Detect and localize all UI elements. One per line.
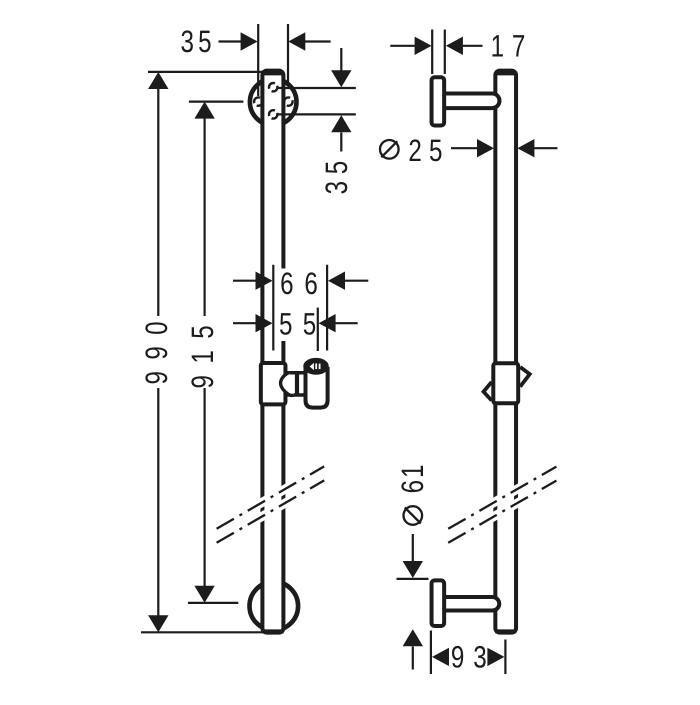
svg-text:25: 25 bbox=[408, 133, 449, 168]
bar bottom cap line (side) bbox=[495, 629, 516, 633]
arrow 990 top bbox=[148, 72, 168, 89]
wall flange top (front view) bbox=[250, 79, 297, 126]
ext line 990 bottom bbox=[141, 631, 264, 633]
ext line 35top left bbox=[257, 24, 259, 96]
ext line 17 left bbox=[431, 30, 433, 75]
ring opening white tick 2 bbox=[319, 364, 321, 370]
dim tail 17 left bbox=[390, 45, 415, 47]
top wall arm (side) bbox=[446, 94, 500, 109]
arrow 35right down bbox=[331, 70, 351, 87]
wall flange bottom (front view) bbox=[249, 582, 298, 631]
dim tail 35top right bbox=[305, 40, 331, 42]
bar top cap line (front) bbox=[262, 72, 283, 76]
ext line 93 left bbox=[430, 631, 432, 675]
holder cone beak (front) bbox=[281, 372, 294, 395]
break line casing (front) bbox=[217, 466, 325, 542]
break line upper (front) bbox=[217, 466, 325, 528]
ext line 35right upper bbox=[278, 87, 356, 89]
holder neck bottom line (front) bbox=[286, 393, 305, 397]
arrow 93 right bbox=[487, 648, 504, 666]
arrow 61 up bbox=[403, 629, 423, 646]
arrow 35right up bbox=[331, 115, 351, 132]
top wall flange (side) bbox=[432, 77, 445, 125]
screw hole S bbox=[269, 110, 277, 118]
arrow 915 bottom bbox=[194, 586, 214, 603]
svg-text:9 3: 9 3 bbox=[451, 640, 488, 675]
ext line 17 right bbox=[444, 30, 446, 75]
arrow 66 right bbox=[328, 272, 345, 290]
ext line 915 top bbox=[189, 100, 244, 102]
dim line 915 lower segment bbox=[204, 388, 206, 587]
ext line 915 bottom bbox=[188, 602, 238, 604]
ext line 61 top bbox=[397, 578, 429, 580]
break line upper (side) bbox=[448, 467, 556, 529]
slider left chevron (side) bbox=[484, 382, 492, 401]
diameter symbol for 25 bbox=[380, 140, 399, 159]
arrow 25 left bbox=[477, 139, 494, 157]
arrow 61 down bbox=[403, 561, 423, 578]
bottom wall arm (side) bbox=[446, 597, 499, 611]
dim tail 25 right bbox=[534, 147, 557, 149]
svg-text:9 9 0: 9 9 0 bbox=[139, 319, 174, 384]
slider body (front view) bbox=[261, 363, 286, 404]
svg-text:35: 35 bbox=[180, 24, 215, 59]
dim line 990 upper segment bbox=[157, 89, 159, 317]
dim line 990 lower segment bbox=[157, 388, 159, 616]
svg-text:17: 17 bbox=[491, 29, 533, 64]
arrow 17 right bbox=[446, 37, 463, 55]
ext line 990 top bbox=[148, 71, 263, 73]
ext line 35top right bbox=[287, 24, 289, 83]
white halo behind 66/55 labels bbox=[277, 269, 316, 342]
ext line 66/55 center bbox=[272, 265, 274, 351]
svg-text:6 6: 6 6 bbox=[280, 266, 320, 301]
break line lower (side) bbox=[448, 481, 556, 543]
dim line 915 upper segment bbox=[204, 118, 206, 316]
ext line 93 right bbox=[504, 640, 506, 675]
dim tail 61 below bbox=[412, 647, 414, 670]
dim tail 25 left bbox=[451, 147, 477, 149]
arrow 55 left bbox=[256, 314, 273, 332]
ext line 55 right bbox=[317, 308, 319, 351]
bar (front view) bbox=[262, 71, 283, 633]
holder cone edge (front) bbox=[295, 371, 299, 396]
bar bottom cap line (front) bbox=[262, 629, 283, 633]
dim tail 35right below bbox=[340, 133, 342, 152]
dim tail 35right above bbox=[340, 48, 342, 71]
ext line 35right lower bbox=[278, 113, 356, 115]
screw hole W bbox=[254, 97, 262, 105]
arrow 990 bottom bbox=[148, 615, 168, 632]
ring opening white triangle bbox=[310, 363, 314, 370]
slider right chevron (side) bbox=[520, 367, 530, 387]
dim tail 55 right bbox=[335, 322, 357, 324]
dim tail 35top left bbox=[219, 40, 242, 42]
bar (side view) bbox=[495, 71, 516, 633]
screw hole N bbox=[269, 83, 277, 91]
svg-text:5 5: 5 5 bbox=[279, 307, 318, 342]
holder neck top line (front) bbox=[286, 371, 305, 375]
bottom wall flange (side) bbox=[432, 580, 445, 626]
ring opening white tick 1 bbox=[315, 363, 317, 369]
bar top cap line (side) bbox=[495, 72, 516, 76]
ext line 66 right bbox=[326, 265, 328, 351]
svg-text:9 1 5: 9 1 5 bbox=[185, 323, 220, 388]
holder ring body (front) bbox=[306, 367, 328, 408]
arrow 35top right bbox=[288, 32, 305, 50]
arrow 55 right bbox=[319, 314, 336, 332]
dim tail 66 right bbox=[345, 280, 369, 282]
arrow 17 left bbox=[415, 37, 432, 55]
break line casing (side) bbox=[448, 467, 556, 543]
break line lower (front) bbox=[217, 480, 325, 542]
dim tail 61 above bbox=[412, 534, 414, 561]
arrow 66 left bbox=[256, 272, 273, 290]
diameter symbol for 61 (rotated) bbox=[404, 506, 423, 525]
dim tail 55 left bbox=[233, 322, 256, 324]
screw hole E bbox=[284, 97, 292, 105]
arrow 93 left bbox=[432, 648, 449, 666]
slider body (side view) bbox=[493, 363, 518, 403]
holder ring top opening (front, dark ellipse) bbox=[305, 360, 327, 374]
arrow 35top left bbox=[241, 32, 258, 50]
arrow 915 top bbox=[194, 102, 214, 119]
dim tail 66 left bbox=[233, 280, 256, 282]
dim tail 17 right bbox=[463, 45, 483, 47]
svg-text:61: 61 bbox=[395, 463, 430, 494]
arrow 25 right bbox=[517, 139, 534, 157]
svg-text:35: 35 bbox=[319, 154, 354, 194]
